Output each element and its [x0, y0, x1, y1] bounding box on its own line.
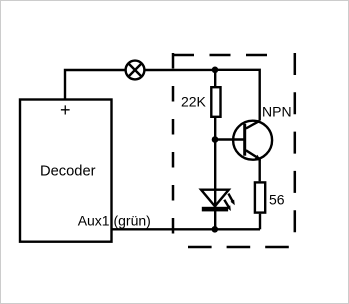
- wire resistor R1 to node B: [214, 118, 216, 140]
- decoder U1 box: [20, 100, 112, 242]
- wire resistor R2 to bottom: [259, 214, 261, 230]
- node C junction: [212, 226, 219, 233]
- dashed enclosure top edge: [173, 54, 267, 57]
- LED D1: [201, 190, 229, 212]
- LED light arrow 2: [224, 200, 231, 211]
- svg-text:+: +: [60, 100, 71, 120]
- transistor Q1 NPN: [233, 121, 272, 161]
- LED light arrow 1: [228, 194, 234, 206]
- svg-text:22K: 22K: [181, 94, 207, 110]
- wire node B to LED: [214, 140, 216, 230]
- svg-text:Decoder: Decoder: [40, 164, 96, 180]
- resistor R1 22K: [211, 87, 220, 117]
- dashed enclosure left edge: [172, 53, 175, 236]
- wire base: [215, 138, 245, 140]
- svg-text:56: 56: [269, 192, 285, 208]
- dashed enclosure bottom edge: [188, 246, 290, 249]
- resistor R2 56: [255, 182, 265, 212]
- node A junction: [212, 67, 219, 74]
- wire node A to collector: [215, 70, 260, 121]
- svg-text:NPN: NPN: [262, 104, 292, 120]
- wire bottom return Aux1: [112, 228, 261, 230]
- wire decoder plus to lamp: [65, 70, 125, 100]
- node B junction: [212, 136, 219, 143]
- wire node A to resistor R1: [214, 70, 216, 86]
- svg-text:Aux1 (grün): Aux1 (grün): [78, 212, 151, 228]
- wire lamp to node A: [145, 69, 215, 71]
- lamp L1: [126, 61, 145, 80]
- wire emitter to resistor R2: [259, 159, 261, 182]
- dashed enclosure right edge: [294, 53, 297, 235]
